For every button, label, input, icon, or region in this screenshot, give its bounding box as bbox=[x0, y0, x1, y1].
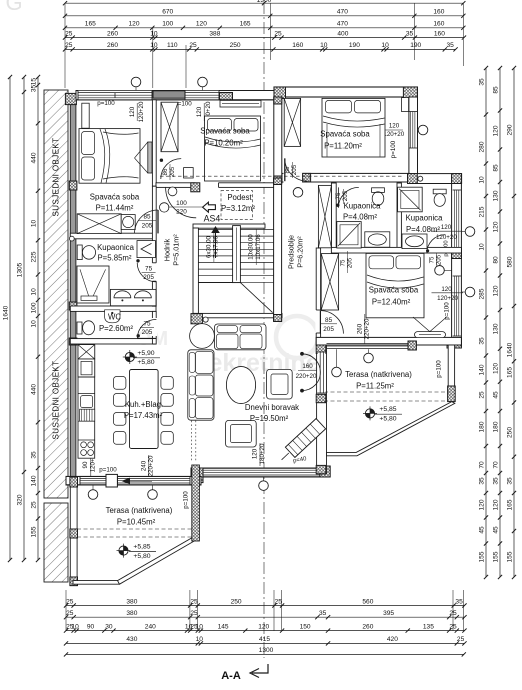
svg-text:75: 75 bbox=[335, 192, 342, 199]
wc toilet bbox=[77, 322, 82, 334]
svg-text:+5,80: +5,80 bbox=[379, 416, 396, 423]
entrance door swing bbox=[166, 187, 197, 218]
terrace left right pier bbox=[192, 465, 200, 541]
svg-text:10: 10 bbox=[196, 636, 204, 643]
svg-text:1300: 1300 bbox=[259, 647, 274, 654]
svg-text:250: 250 bbox=[507, 427, 514, 438]
svg-text:120: 120 bbox=[493, 363, 500, 374]
room label Podest bbox=[221, 191, 252, 220]
svg-text:120: 120 bbox=[493, 285, 500, 296]
svg-text:395: 395 bbox=[383, 610, 394, 617]
svg-text:155: 155 bbox=[31, 526, 38, 537]
svg-text:35: 35 bbox=[447, 42, 455, 49]
svg-text:220+20: 220+20 bbox=[148, 455, 155, 476]
svg-text:120: 120 bbox=[128, 21, 139, 28]
terrace left bottom wall bbox=[73, 581, 119, 585]
svg-text:120: 120 bbox=[493, 125, 500, 136]
left dimension columns bbox=[9, 77, 11, 560]
svg-text:10: 10 bbox=[31, 320, 38, 328]
svg-text:160: 160 bbox=[433, 21, 444, 28]
top wall of bedroom 11.20 bbox=[274, 87, 417, 97]
svg-text:560: 560 bbox=[362, 598, 373, 605]
svg-text:205: 205 bbox=[342, 190, 349, 201]
svg-text:P=19.50m²: P=19.50m² bbox=[250, 414, 289, 423]
kupaonica 5.85 walls bbox=[70, 233, 156, 239]
svg-text:35: 35 bbox=[31, 451, 38, 459]
svg-text:100: 100 bbox=[176, 200, 187, 207]
door kupaonica 5.85 bbox=[137, 263, 156, 282]
svg-text:75: 75 bbox=[143, 321, 151, 328]
svg-text:p=100: p=100 bbox=[436, 360, 443, 378]
svg-text:15: 15 bbox=[31, 78, 38, 86]
svg-text:Spavaća soba: Spavaća soba bbox=[200, 127, 250, 136]
svg-text:155: 155 bbox=[507, 551, 514, 562]
svg-text:10: 10 bbox=[150, 42, 158, 49]
column circles bbox=[131, 77, 141, 87]
top wall left part with windows bbox=[76, 91, 274, 100]
svg-text:440: 440 bbox=[31, 384, 38, 395]
wall pier between windows bbox=[153, 91, 185, 98]
svg-text:25: 25 bbox=[65, 42, 73, 49]
svg-text:10: 10 bbox=[31, 220, 38, 228]
svg-text:110: 110 bbox=[167, 42, 178, 49]
svg-text:260: 260 bbox=[107, 30, 118, 37]
living room bottom wall with windows bbox=[191, 468, 330, 477]
svg-text:25: 25 bbox=[65, 30, 73, 37]
right extension wall bbox=[409, 174, 462, 184]
svg-text:380: 380 bbox=[126, 598, 137, 605]
svg-text:120+20: 120+20 bbox=[437, 295, 458, 302]
svg-text:+5,85: +5,85 bbox=[379, 406, 396, 413]
svg-text:p=100: p=100 bbox=[444, 302, 451, 320]
sofa corner bbox=[190, 324, 215, 349]
svg-text:25: 25 bbox=[190, 598, 198, 605]
svg-text:25: 25 bbox=[31, 501, 38, 509]
terrace left outline bbox=[70, 477, 77, 586]
svg-text:85: 85 bbox=[325, 317, 333, 324]
svg-text:220+20: 220+20 bbox=[296, 373, 317, 380]
dining chairs bbox=[114, 377, 126, 390]
svg-text:10x30.00: 10x30.00 bbox=[248, 234, 255, 260]
svg-text:120+20: 120+20 bbox=[383, 131, 404, 138]
svg-text:100: 100 bbox=[31, 302, 38, 313]
svg-text:Kupaonica: Kupaonica bbox=[344, 202, 382, 211]
svg-text:240: 240 bbox=[145, 623, 156, 630]
svg-text:Kuh.+Blag.: Kuh.+Blag. bbox=[125, 400, 163, 409]
svg-text:205: 205 bbox=[435, 254, 442, 265]
svg-text:120: 120 bbox=[389, 123, 400, 130]
svg-text:Podest: Podest bbox=[227, 193, 252, 202]
svg-text:400: 400 bbox=[337, 30, 348, 37]
stair hall right wall bbox=[274, 178, 282, 321]
svg-text:220: 220 bbox=[176, 208, 187, 215]
svg-text:1300: 1300 bbox=[257, 0, 272, 4]
svg-text:35: 35 bbox=[493, 477, 500, 485]
svg-text:p=100: p=100 bbox=[182, 491, 189, 509]
neighbour wall SUSJEDNI OBJEKT bbox=[44, 90, 68, 498]
bed bedroom 11.44 bbox=[79, 129, 140, 184]
svg-text:25: 25 bbox=[189, 42, 197, 49]
svg-text:WC: WC bbox=[108, 313, 121, 322]
wc sink bbox=[105, 310, 120, 323]
svg-text:160: 160 bbox=[433, 9, 444, 16]
svg-text:165: 165 bbox=[507, 499, 514, 510]
svg-text:180+20: 180+20 bbox=[259, 443, 266, 464]
svg-text:120+20: 120+20 bbox=[138, 101, 145, 122]
bathroom walls bbox=[331, 183, 336, 253]
svg-text:7x17.06: 7x17.06 bbox=[213, 235, 220, 258]
svg-text:205: 205 bbox=[142, 223, 153, 230]
living room glass door to terrace bbox=[318, 352, 326, 393]
svg-text:35: 35 bbox=[479, 337, 486, 345]
elevation marker +5,85 bbox=[363, 406, 377, 420]
svg-text:145: 145 bbox=[218, 623, 229, 630]
coffee table oval bbox=[226, 366, 255, 403]
sofa vertical part bbox=[188, 350, 214, 420]
svg-text:160: 160 bbox=[292, 42, 303, 49]
partition bedroom 11.44 / 10.20 and hodnik bbox=[152, 100, 156, 186]
kitchen fridge bbox=[78, 359, 95, 377]
pillows bedroom 11.20 bbox=[326, 100, 352, 113]
wardrobe predsoblje bbox=[318, 185, 331, 247]
svg-text:10: 10 bbox=[320, 42, 328, 49]
left outer wall bbox=[70, 94, 76, 477]
svg-text:470: 470 bbox=[337, 21, 348, 28]
column circle leader lines bbox=[135, 86, 137, 91]
svg-text:25: 25 bbox=[274, 30, 282, 37]
svg-text:75: 75 bbox=[145, 265, 153, 272]
kupaonica 4.08 right sink bbox=[402, 234, 427, 249]
cabinet circle bedroom 11.44 bbox=[121, 215, 135, 230]
svg-text:25: 25 bbox=[190, 610, 198, 617]
svg-text:205: 205 bbox=[291, 164, 298, 175]
svg-text:85: 85 bbox=[493, 86, 500, 94]
svg-text:100: 100 bbox=[162, 21, 173, 28]
svg-text:25: 25 bbox=[479, 391, 486, 399]
svg-text:90: 90 bbox=[87, 623, 95, 630]
kupaonica 4.08 left sink bbox=[365, 232, 390, 247]
svg-text:25: 25 bbox=[275, 598, 283, 605]
svg-text:220+20: 220+20 bbox=[364, 318, 371, 339]
svg-text:Spavaća soba: Spavaća soba bbox=[369, 286, 419, 295]
svg-text:285: 285 bbox=[479, 288, 486, 299]
elevation marker +5,85 bbox=[117, 544, 131, 558]
svg-text:30: 30 bbox=[105, 623, 113, 630]
svg-text:P=2.60m²: P=2.60m² bbox=[99, 324, 133, 333]
bottom wall of top bedrooms bbox=[156, 183, 274, 188]
svg-text:70: 70 bbox=[493, 461, 500, 469]
svg-text:190: 190 bbox=[410, 42, 421, 49]
svg-text:P=5.01m²: P=5.01m² bbox=[172, 234, 181, 266]
svg-text:388: 388 bbox=[209, 30, 220, 37]
svg-text:45: 45 bbox=[493, 391, 500, 399]
svg-text:165: 165 bbox=[240, 21, 251, 28]
svg-text:140: 140 bbox=[31, 475, 38, 486]
svg-text:120: 120 bbox=[441, 286, 452, 293]
closet bedroom 11.20 bbox=[284, 98, 300, 146]
bottom dimension block bbox=[66, 605, 464, 607]
right dimension columns bbox=[485, 68, 487, 577]
svg-text:155: 155 bbox=[479, 551, 486, 562]
bedroom 12.40 bottom wall bbox=[316, 337, 461, 345]
svg-text:Predsoblje: Predsoblje bbox=[287, 235, 296, 269]
wc walls bbox=[70, 339, 156, 344]
svg-text:25: 25 bbox=[66, 598, 74, 605]
svg-text:120+20: 120+20 bbox=[436, 234, 457, 241]
kitchen dishwasher bbox=[80, 409, 95, 421]
svg-text:280: 280 bbox=[479, 141, 486, 152]
svg-text:80: 80 bbox=[493, 256, 500, 264]
elevation marker +5,90 bbox=[123, 350, 137, 364]
svg-text:+5,85: +5,85 bbox=[133, 543, 150, 550]
svg-text:415: 415 bbox=[259, 636, 270, 643]
svg-text:140: 140 bbox=[479, 364, 486, 375]
shelf bedroom 10.20 bbox=[220, 100, 261, 107]
svg-text:205: 205 bbox=[346, 257, 353, 268]
svg-text:35: 35 bbox=[507, 477, 514, 485]
kupaonica 5.85 double sink bbox=[110, 289, 156, 305]
svg-text:120: 120 bbox=[129, 106, 136, 117]
svg-text:225: 225 bbox=[31, 251, 38, 262]
svg-text:260: 260 bbox=[356, 323, 363, 334]
kupaonica 4.08 left toilet bbox=[372, 188, 385, 193]
svg-text:10: 10 bbox=[150, 30, 158, 37]
svg-text:10x17.06: 10x17.06 bbox=[255, 234, 262, 260]
svg-text:P=4.08m²: P=4.08m² bbox=[406, 225, 440, 234]
svg-text:135: 135 bbox=[423, 623, 434, 630]
centerline A-A bbox=[263, 2, 265, 658]
svg-text:120: 120 bbox=[493, 499, 500, 510]
svg-text:P=5.85m²: P=5.85m² bbox=[97, 254, 131, 263]
armchair south bbox=[226, 420, 257, 447]
kupaonica 4.08 right shower bbox=[398, 187, 423, 212]
svg-text:380: 380 bbox=[126, 610, 137, 617]
svg-text:P=11.44m²: P=11.44m² bbox=[96, 204, 134, 213]
kupaonica 5.85 shower bbox=[77, 266, 109, 303]
svg-text:SUSJEDNI OBJEKT: SUSJEDNI OBJEKT bbox=[52, 361, 61, 440]
door bedroom 10.20 bbox=[161, 159, 181, 179]
svg-text:290: 290 bbox=[507, 124, 514, 135]
svg-text:Dnevni boravak: Dnevni boravak bbox=[245, 403, 299, 412]
svg-text:Spavaća soba: Spavaća soba bbox=[320, 130, 370, 139]
door leaf between bedrooms bbox=[148, 142, 152, 173]
dresser bedroom 11.44 bbox=[77, 214, 121, 234]
svg-text:420: 420 bbox=[387, 636, 398, 643]
svg-text:215: 215 bbox=[479, 206, 486, 217]
bed bedroom 10.20 bbox=[205, 116, 261, 181]
svg-text:190: 190 bbox=[349, 42, 360, 49]
stairwell walls bbox=[193, 224, 265, 228]
svg-text:85: 85 bbox=[143, 214, 151, 221]
svg-text:10: 10 bbox=[479, 176, 486, 184]
terrace left diagonal edge bbox=[118, 537, 197, 585]
kitchen bottom wall with windows bbox=[66, 476, 201, 485]
door predsoblje to living room bbox=[320, 311, 343, 334]
dining table bbox=[130, 370, 159, 449]
svg-text:320: 320 bbox=[17, 494, 24, 505]
svg-text:Terasa (natkrivena): Terasa (natkrivena) bbox=[345, 370, 412, 379]
svg-text:250: 250 bbox=[230, 42, 241, 49]
right outer wall with windows bbox=[452, 176, 462, 347]
svg-text:205: 205 bbox=[323, 326, 334, 333]
svg-text:10: 10 bbox=[72, 623, 80, 630]
kitchen counter bbox=[78, 345, 95, 459]
svg-text:85: 85 bbox=[493, 164, 500, 172]
svg-text:180: 180 bbox=[479, 421, 486, 432]
svg-text:35: 35 bbox=[406, 30, 414, 37]
svg-text:160: 160 bbox=[434, 30, 445, 37]
top dimension block bbox=[65, 2, 463, 4]
svg-text:470: 470 bbox=[337, 9, 348, 16]
bed bedroom 12.40 bbox=[366, 253, 424, 317]
terrace right diagonal bbox=[327, 402, 455, 456]
svg-text:Spavaća soba: Spavaća soba bbox=[90, 193, 140, 202]
svg-text:440: 440 bbox=[31, 152, 38, 163]
svg-text:120: 120 bbox=[479, 499, 486, 510]
svg-text:120: 120 bbox=[196, 21, 207, 28]
svg-text:P=17.43m²: P=17.43m² bbox=[124, 411, 163, 420]
wardrobe bedroom 12.40 bbox=[321, 254, 338, 310]
svg-text:120: 120 bbox=[441, 224, 452, 231]
nightstand bedroom 10.20 bbox=[184, 168, 194, 178]
svg-text:90: 90 bbox=[82, 461, 89, 468]
terrace right dashed lines bbox=[324, 391, 449, 393]
svg-text:G: G bbox=[5, 0, 22, 15]
svg-text:130: 130 bbox=[493, 190, 500, 201]
door bedroom 11.20 bbox=[285, 158, 308, 181]
door kupaonica 4.08 right bbox=[427, 235, 446, 254]
svg-text:Kupaonica: Kupaonica bbox=[406, 214, 444, 223]
nightstand bedroom 11.20 right bbox=[402, 98, 409, 112]
kupaonica 4.08 right toilet bbox=[433, 189, 446, 194]
svg-text:165: 165 bbox=[85, 21, 96, 28]
svg-text:10: 10 bbox=[196, 623, 204, 630]
svg-text:35: 35 bbox=[455, 598, 463, 605]
door kupaonica 4.08 left bbox=[338, 187, 358, 207]
svg-text:120: 120 bbox=[252, 448, 259, 459]
svg-text:260: 260 bbox=[107, 42, 118, 49]
staircase bbox=[198, 226, 273, 313]
watermark bbox=[5, 0, 319, 377]
tv stand bedroom 12.40 bbox=[415, 332, 446, 338]
nightstand bedroom 11.44 bbox=[82, 103, 89, 128]
svg-text:120: 120 bbox=[196, 106, 203, 117]
svg-text:75: 75 bbox=[428, 256, 435, 263]
terrace left dashed lines bbox=[77, 528, 192, 530]
svg-text:580: 580 bbox=[507, 256, 514, 267]
svg-text:Terasa (natkrivena): Terasa (natkrivena) bbox=[106, 506, 173, 515]
svg-text:6x30.00: 6x30.00 bbox=[206, 235, 213, 258]
svg-text:86: 86 bbox=[162, 168, 169, 175]
kitchen pantry closet bbox=[78, 345, 95, 359]
bedroom 12.40 left wall with door opening bbox=[316, 248, 320, 345]
svg-text:1640: 1640 bbox=[507, 342, 514, 357]
kupaonica 4.08 left shower bbox=[337, 222, 361, 248]
svg-text:25: 25 bbox=[457, 636, 465, 643]
svg-text:240: 240 bbox=[140, 460, 147, 471]
svg-text:A-A: A-A bbox=[221, 670, 241, 682]
svg-text:1305: 1305 bbox=[17, 262, 24, 277]
svg-text:P=10.45m²: P=10.45m² bbox=[117, 518, 156, 527]
svg-text:250: 250 bbox=[231, 598, 242, 605]
closet bedroom 10.20 bbox=[161, 102, 178, 152]
svg-text:10: 10 bbox=[31, 288, 38, 296]
kitchen oven bbox=[81, 396, 93, 408]
svg-text:260: 260 bbox=[362, 623, 373, 630]
svg-text:P=11.20m²: P=11.20m² bbox=[324, 142, 362, 151]
stairs break diagonal bbox=[240, 283, 272, 313]
wall between bedroom 10.20 and 11.20 bbox=[274, 97, 282, 183]
svg-text:205: 205 bbox=[169, 166, 176, 177]
sofa horizontal part bbox=[215, 324, 267, 350]
door wc bbox=[137, 319, 156, 338]
svg-text:10: 10 bbox=[381, 42, 389, 49]
svg-text:SUSJEDNI OBJEKT: SUSJEDNI OBJEKT bbox=[52, 138, 61, 217]
svg-text:75: 75 bbox=[339, 259, 346, 266]
svg-text:AS4: AS4 bbox=[204, 214, 221, 224]
svg-text:35: 35 bbox=[31, 85, 38, 93]
svg-text:35: 35 bbox=[479, 477, 486, 485]
stairs up arrow bbox=[211, 226, 220, 233]
svg-text:45: 45 bbox=[479, 526, 486, 534]
bed bedroom 11.20 bbox=[322, 98, 385, 157]
dashed line bedrooms bbox=[160, 175, 272, 177]
kupaonica 5.85 corner basin bbox=[137, 241, 155, 258]
svg-text:P=10.20m²: P=10.20m² bbox=[204, 139, 243, 148]
svg-text:45: 45 bbox=[493, 526, 500, 534]
armchair east bbox=[267, 369, 293, 399]
svg-text:180: 180 bbox=[493, 421, 500, 432]
svg-text:160: 160 bbox=[302, 363, 313, 370]
svg-text:155: 155 bbox=[493, 551, 500, 562]
svg-text:p=100: p=100 bbox=[390, 140, 397, 158]
svg-text:70: 70 bbox=[479, 461, 486, 469]
svg-text:+5,90: +5,90 bbox=[137, 350, 154, 357]
dotted lines below sofa bbox=[191, 421, 193, 461]
svg-text:205: 205 bbox=[143, 274, 154, 281]
svg-text:35: 35 bbox=[479, 78, 486, 86]
kupaonica 5.85 toilet bbox=[77, 245, 82, 260]
wall bedroom11.20 bottom bbox=[282, 173, 409, 182]
svg-text:120: 120 bbox=[493, 221, 500, 232]
svg-text:Hodnik: Hodnik bbox=[163, 238, 172, 261]
svg-text:p=100: p=100 bbox=[99, 467, 117, 474]
svg-text:150: 150 bbox=[300, 623, 311, 630]
svg-text:165: 165 bbox=[507, 367, 514, 378]
svg-text:35: 35 bbox=[319, 610, 327, 617]
svg-text:P=3.12m²: P=3.12m² bbox=[221, 204, 255, 213]
svg-text:1640: 1640 bbox=[3, 305, 10, 320]
svg-text:120: 120 bbox=[258, 623, 269, 630]
svg-text:430: 430 bbox=[126, 636, 137, 643]
svg-text:205: 205 bbox=[142, 329, 153, 336]
svg-text:670: 670 bbox=[162, 9, 173, 16]
svg-text:P=12.40m²: P=12.40m² bbox=[372, 298, 411, 307]
svg-text:P=6.20m²: P=6.20m² bbox=[296, 236, 305, 268]
door bedroom 11.44 bbox=[135, 210, 159, 233]
svg-text:130: 130 bbox=[493, 323, 500, 334]
entrance arrow AS4 bbox=[203, 202, 216, 212]
svg-text:Kupaonica: Kupaonica bbox=[97, 243, 135, 252]
svg-text:10: 10 bbox=[479, 243, 486, 251]
terrace right east wall bbox=[448, 345, 454, 386]
svg-text:25: 25 bbox=[66, 610, 74, 617]
svg-text:P=4.08m²: P=4.08m² bbox=[343, 213, 377, 222]
svg-text:P=11.25m²: P=11.25m² bbox=[356, 382, 394, 391]
fireplace diagonal bbox=[285, 419, 325, 458]
svg-text:85: 85 bbox=[284, 166, 291, 173]
svg-text:p=100: p=100 bbox=[97, 100, 115, 107]
